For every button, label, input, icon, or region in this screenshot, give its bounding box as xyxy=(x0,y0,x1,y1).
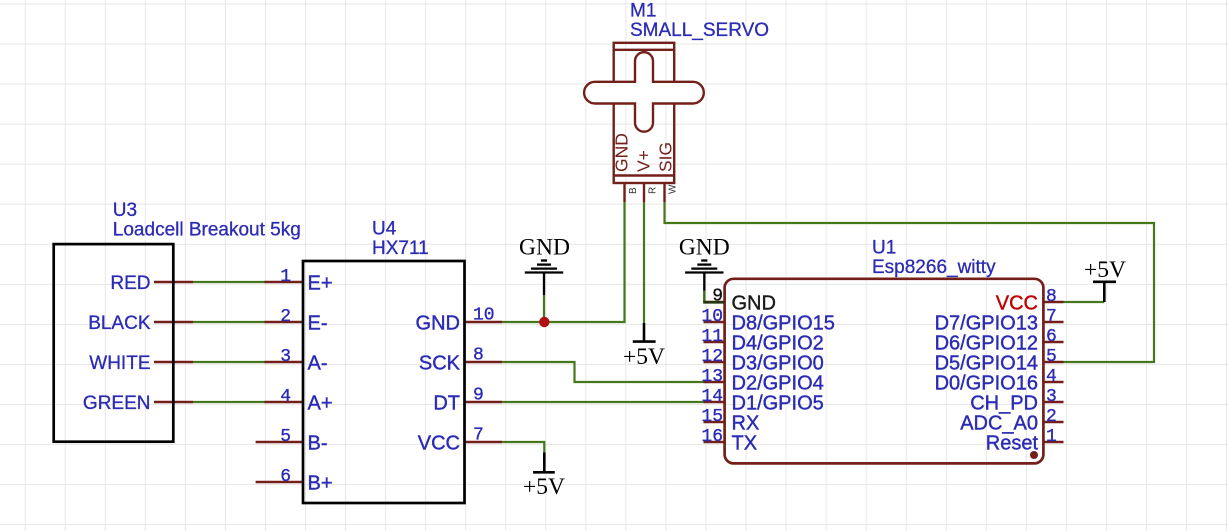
svg-text:GND: GND xyxy=(416,313,460,335)
svg-text:1: 1 xyxy=(1046,427,1057,447)
svg-text:RX: RX xyxy=(732,413,760,435)
svg-text:5: 5 xyxy=(1046,347,1057,367)
svg-text:B+: B+ xyxy=(308,473,333,495)
svg-text:4: 4 xyxy=(1046,367,1057,387)
svg-text:Esp8266_witty: Esp8266_witty xyxy=(872,257,996,278)
svg-text:VCC: VCC xyxy=(418,433,460,455)
svg-text:E+: E+ xyxy=(308,273,333,295)
svg-text:7: 7 xyxy=(1046,307,1057,327)
svg-text:BLACK: BLACK xyxy=(88,313,151,334)
svg-text:8: 8 xyxy=(473,346,484,366)
svg-text:CH_PD: CH_PD xyxy=(970,393,1038,415)
svg-text:U1: U1 xyxy=(872,238,896,259)
svg-text:GND: GND xyxy=(679,235,730,261)
svg-text:8: 8 xyxy=(1046,287,1057,307)
svg-text:2: 2 xyxy=(1046,407,1057,427)
svg-text:ADC_A0: ADC_A0 xyxy=(960,413,1038,435)
svg-text:2: 2 xyxy=(280,307,291,327)
svg-text:VCC: VCC xyxy=(996,293,1038,315)
svg-text:Loadcell Breakout 5kg: Loadcell Breakout 5kg xyxy=(113,220,301,241)
svg-text:D7/GPIO13: D7/GPIO13 xyxy=(935,313,1038,335)
svg-text:13: 13 xyxy=(701,367,723,387)
svg-text:16: 16 xyxy=(701,427,723,447)
svg-text:6: 6 xyxy=(280,467,291,487)
svg-text:D0/GPIO16: D0/GPIO16 xyxy=(935,373,1038,395)
svg-text:HX711: HX711 xyxy=(372,238,429,259)
svg-text:D6/GPIO12: D6/GPIO12 xyxy=(935,333,1038,355)
svg-text:6: 6 xyxy=(1046,327,1057,347)
svg-text:U3: U3 xyxy=(113,200,137,221)
svg-text:9: 9 xyxy=(712,287,723,307)
svg-text:B: B xyxy=(628,187,639,194)
svg-text:TX: TX xyxy=(732,433,758,455)
svg-text:10: 10 xyxy=(473,306,495,326)
svg-text:9: 9 xyxy=(473,386,484,406)
svg-text:D1/GPIO5: D1/GPIO5 xyxy=(732,393,824,415)
svg-text:V+: V+ xyxy=(634,150,654,172)
svg-text:+5V: +5V xyxy=(623,344,665,370)
svg-text:SCK: SCK xyxy=(419,353,461,375)
svg-text:+5V: +5V xyxy=(1084,257,1126,283)
svg-text:GND: GND xyxy=(612,133,632,172)
svg-text:GREEN: GREEN xyxy=(83,393,151,414)
svg-text:D4/GPIO2: D4/GPIO2 xyxy=(732,333,824,355)
svg-text:E-: E- xyxy=(308,313,328,335)
svg-text:Reset: Reset xyxy=(986,433,1039,455)
svg-text:D5/GPIO14: D5/GPIO14 xyxy=(935,353,1038,375)
svg-text:SIG: SIG xyxy=(656,142,676,172)
svg-text:U4: U4 xyxy=(372,219,397,240)
svg-text:D8/GPIO15: D8/GPIO15 xyxy=(732,313,835,335)
svg-text:4: 4 xyxy=(280,387,291,407)
svg-text:15: 15 xyxy=(701,407,723,427)
svg-text:SMALL_SERVO: SMALL_SERVO xyxy=(630,20,769,41)
svg-text:W: W xyxy=(668,184,679,194)
svg-text:+5V: +5V xyxy=(523,474,565,500)
svg-text:D2/GPIO4: D2/GPIO4 xyxy=(732,373,824,395)
svg-text:A-: A- xyxy=(308,353,328,375)
svg-text:R: R xyxy=(648,187,659,194)
svg-text:WHITE: WHITE xyxy=(89,353,150,374)
svg-text:DT: DT xyxy=(433,393,460,415)
svg-text:14: 14 xyxy=(701,387,723,407)
svg-text:12: 12 xyxy=(701,347,723,367)
svg-text:11: 11 xyxy=(701,327,723,347)
svg-text:3: 3 xyxy=(1046,387,1057,407)
svg-text:10: 10 xyxy=(701,307,723,327)
svg-text:A+: A+ xyxy=(308,393,333,415)
svg-text:5: 5 xyxy=(280,427,291,447)
svg-text:1: 1 xyxy=(280,267,291,287)
svg-text:B-: B- xyxy=(308,433,328,455)
svg-text:GND: GND xyxy=(519,235,570,261)
svg-text:RED: RED xyxy=(110,273,150,294)
svg-text:D3/GPIO0: D3/GPIO0 xyxy=(732,353,824,375)
svg-text:7: 7 xyxy=(473,426,484,446)
svg-text:3: 3 xyxy=(280,347,291,367)
svg-text:M1: M1 xyxy=(630,1,656,22)
svg-text:GND: GND xyxy=(732,293,776,315)
